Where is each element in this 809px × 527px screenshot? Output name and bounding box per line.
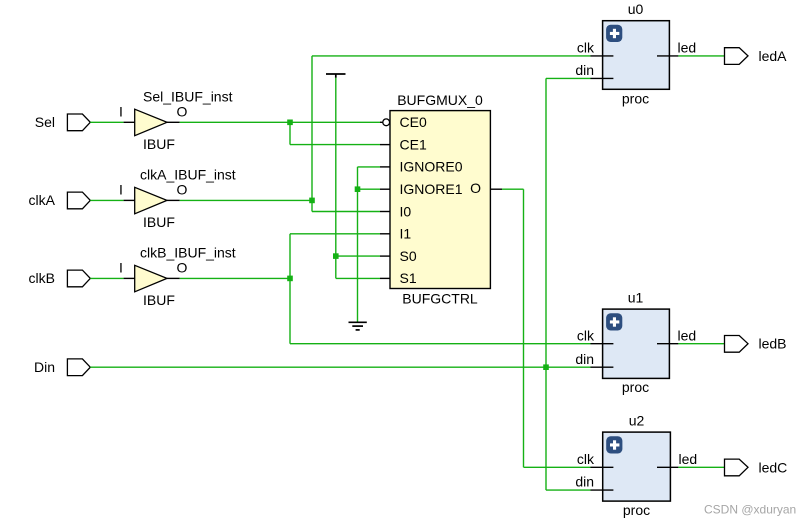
svg-text:S0: S0 [400, 248, 417, 264]
port Din [34, 359, 90, 376]
svg-text:u0: u0 [628, 1, 644, 17]
svg-text:CE1: CE1 [400, 136, 427, 152]
block u0 (proc) [575, 1, 696, 106]
svg-text:I: I [119, 182, 123, 198]
svg-text:O: O [177, 104, 188, 120]
svg-text:IBUF: IBUF [143, 136, 175, 152]
svg-text:ledA: ledA [759, 48, 788, 64]
wire clkB port to IBUF [90, 277, 123, 279]
buffer Sel_IBUF_inst [119, 88, 233, 152]
junction GND/IGNORE1 [355, 186, 361, 192]
svg-text:u2: u2 [629, 413, 645, 429]
net GND to IGNORE0 and IGNORE1 [358, 167, 381, 322]
port ledC [725, 459, 788, 476]
power VCC symbol [326, 74, 346, 78]
block BUFGMUX_0 (BUFGCTRL) [380, 92, 502, 307]
net ledC: u2 led to port [678, 466, 724, 468]
net Sel: IBUF out to CE0 bubble and CE1 [180, 122, 381, 144]
port ledA [725, 48, 788, 65]
svg-text:din: din [575, 62, 594, 78]
junction clkA/I0 [309, 198, 315, 204]
svg-text:BUFGMUX_0: BUFGMUX_0 [397, 92, 483, 108]
svg-text:led: led [678, 327, 697, 343]
svg-text:led: led [678, 40, 697, 56]
svg-text:IBUF: IBUF [143, 214, 175, 230]
svg-text:clk: clk [577, 451, 595, 467]
svg-text:BUFGCTRL: BUFGCTRL [402, 291, 478, 307]
ground symbol [349, 322, 367, 330]
svg-text:O: O [470, 180, 481, 196]
buffer clkB_IBUF_inst [119, 244, 236, 308]
net VCC to S0 and S1 [336, 78, 380, 279]
junction Din/u1 din [543, 364, 549, 370]
svg-text:IGNORE0: IGNORE0 [400, 159, 463, 175]
junction Sel/CE1 [287, 120, 293, 126]
svg-text:clk: clk [577, 40, 595, 56]
svg-text:din: din [575, 474, 594, 490]
svg-text:Sel_IBUF_inst: Sel_IBUF_inst [143, 88, 233, 104]
buffer clkA_IBUF_inst [119, 166, 236, 230]
svg-text:proc: proc [622, 90, 649, 106]
svg-text:I: I [119, 260, 123, 276]
svg-text:clkB_IBUF_inst: clkB_IBUF_inst [140, 244, 236, 260]
junction clkB/I1 [287, 276, 293, 282]
svg-text:CSDN @xduryan: CSDN @xduryan [704, 503, 796, 517]
svg-text:I0: I0 [400, 203, 412, 219]
block u1 (proc) [575, 290, 696, 395]
svg-text:S1: S1 [400, 270, 417, 286]
svg-text:I1: I1 [400, 226, 412, 242]
svg-text:IGNORE1: IGNORE1 [400, 181, 463, 197]
net ledB: u1 led to port [678, 343, 724, 345]
svg-text:CE0: CE0 [400, 114, 427, 130]
net Din: port to u0/u1/u2 din [90, 78, 590, 490]
port clkB [29, 270, 91, 287]
svg-text:ledB: ledB [759, 336, 787, 352]
svg-text:ledC: ledC [759, 459, 788, 475]
port ledB [725, 336, 787, 353]
svg-text:clk: clk [577, 327, 595, 343]
svg-text:u1: u1 [628, 290, 644, 306]
svg-text:clkA: clkA [29, 192, 56, 208]
svg-text:O: O [177, 260, 188, 276]
net O: BUFGMUX out to u2 clk [502, 189, 591, 467]
svg-text:din: din [575, 351, 594, 367]
block u2 (proc) [575, 413, 697, 519]
svg-text:Sel: Sel [35, 114, 55, 130]
net clkB: IBUF out to I1 and u1 clk [180, 234, 591, 344]
svg-text:IBUF: IBUF [143, 292, 175, 308]
svg-text:I: I [119, 104, 123, 120]
svg-text:clkB: clkB [29, 270, 55, 286]
junction VCC/S0 [333, 253, 339, 259]
net clkA: IBUF out to I0 and u0 clk [180, 56, 591, 212]
port Sel [35, 114, 91, 131]
svg-text:proc: proc [622, 379, 649, 395]
port clkA [29, 192, 91, 209]
svg-text:clkA_IBUF_inst: clkA_IBUF_inst [140, 166, 236, 182]
svg-text:Din: Din [34, 359, 55, 375]
net ledA: u0 led to port [678, 55, 724, 57]
svg-text:led: led [679, 451, 698, 467]
svg-text:proc: proc [623, 502, 650, 518]
wire Sel port to IBUF [90, 121, 123, 123]
svg-text:O: O [177, 182, 188, 198]
wire clkA port to IBUF [90, 199, 123, 201]
